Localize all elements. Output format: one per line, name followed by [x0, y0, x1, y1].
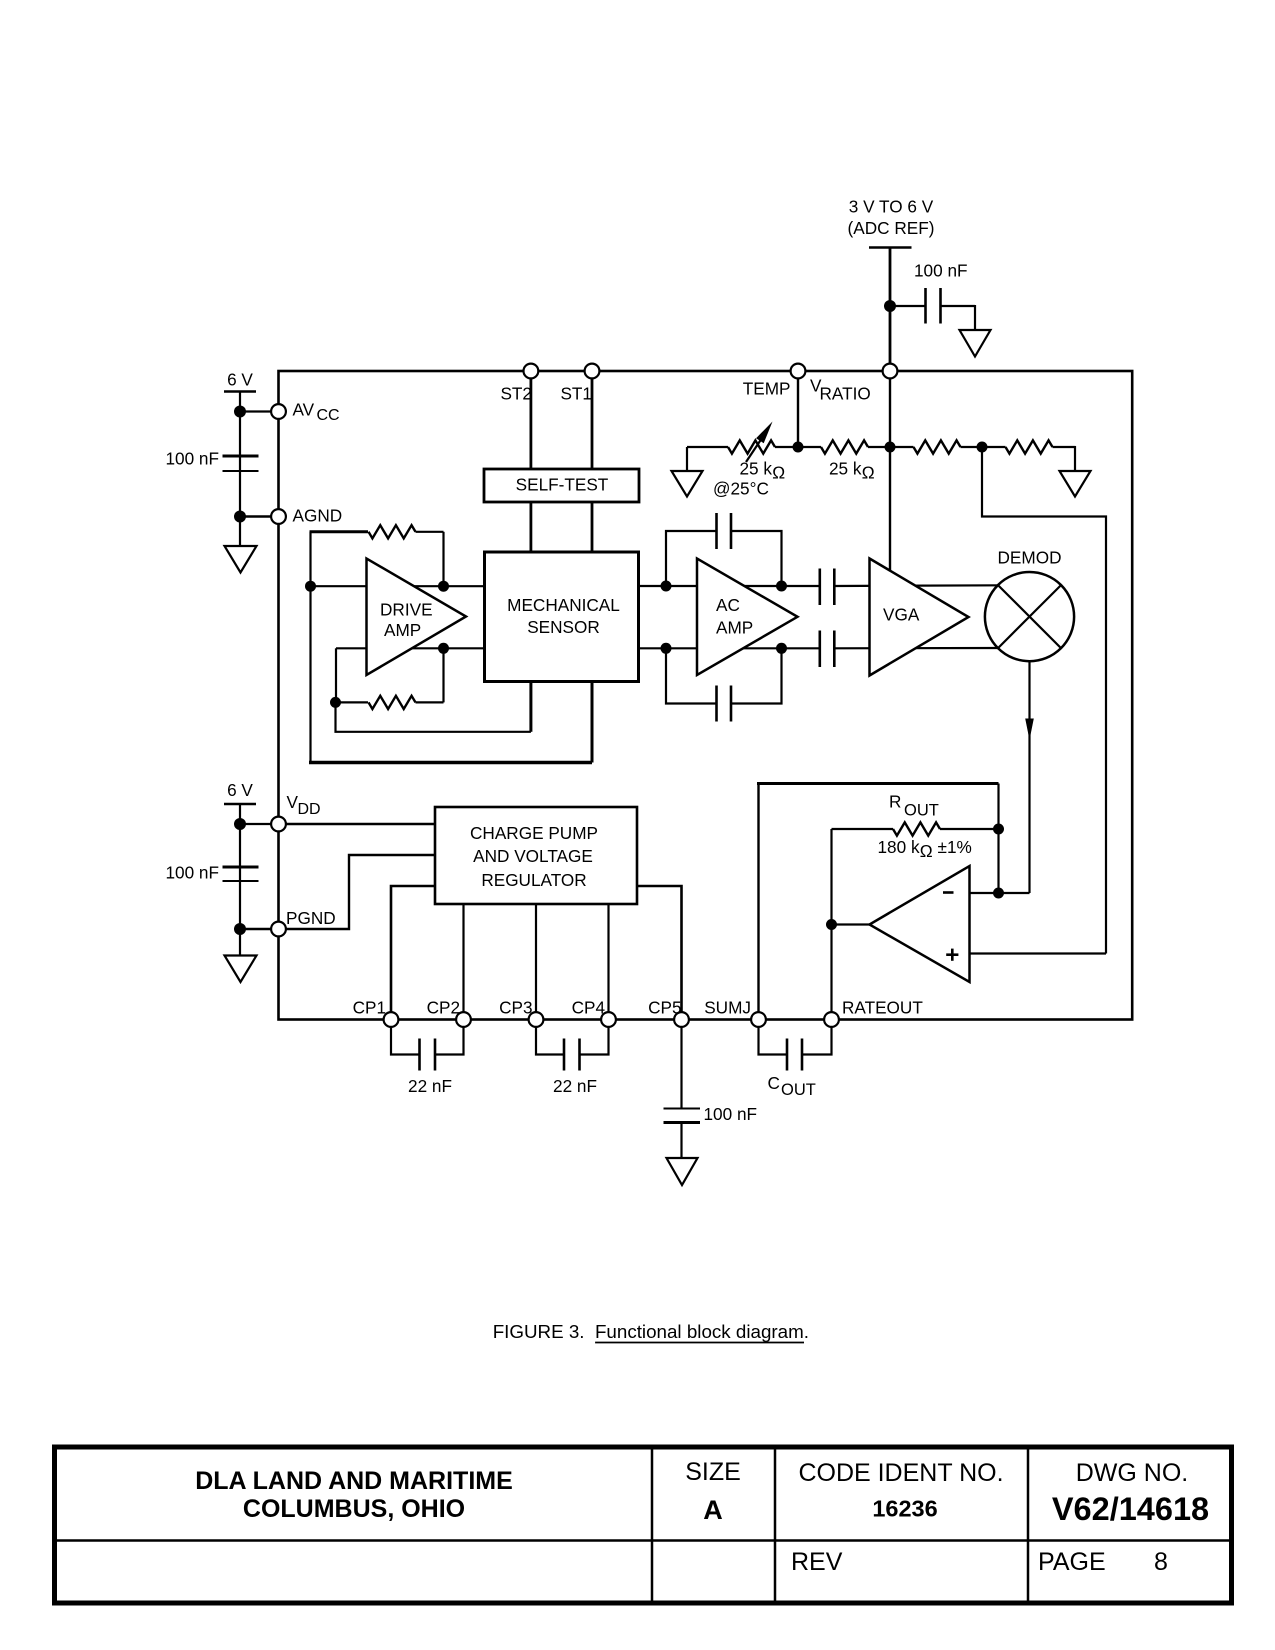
svg-text:REV: REV [791, 1548, 843, 1576]
wire AC amp bottom input [639, 647, 820, 649]
ground GND1 [960, 330, 991, 357]
label 180 kOhm 1% [878, 837, 972, 861]
junction dot AC out bottom [776, 643, 787, 654]
svg-text:SENSOR: SENSOR [527, 617, 600, 637]
junction dot AC in bottom [661, 643, 672, 654]
svg-text:DWG NO.: DWG NO. [1076, 1459, 1189, 1487]
node 6 V supply (AVCC) [224, 370, 256, 392]
wire feedback right vertical [997, 784, 999, 894]
wire C1 to ground [941, 305, 976, 330]
capacitor C2 100 nF (AVCC) [165, 449, 258, 472]
pin PGND [271, 908, 336, 936]
AC amp A2 [697, 559, 798, 676]
pin VRATIO [810, 364, 897, 404]
svg-text:OUT: OUT [781, 1081, 816, 1099]
wire R2 to VRATIO node [868, 446, 914, 448]
wire sensor bottom loop inner [336, 682, 531, 732]
wire to AGND pin [240, 515, 272, 518]
svg-text:SUMJ: SUMJ [704, 998, 751, 1018]
svg-text:R: R [889, 792, 901, 812]
wire R4 to ground [1053, 446, 1076, 471]
pin TEMP [743, 364, 806, 399]
wire R3 to R4 node [961, 446, 1006, 448]
junction dot VDD [234, 818, 246, 830]
capacitor C6 coupling top [820, 569, 835, 606]
svg-text:COLUMBUS, OHIO: COLUMBUS, OHIO [243, 1495, 465, 1523]
svg-text:AGND: AGND [293, 506, 343, 526]
junction dot AVCC [234, 406, 246, 418]
wire VRATIO pin to VGA input [889, 378, 891, 573]
resistor R6 drive feedback bottom [336, 648, 444, 709]
pin CP3 [499, 998, 543, 1027]
ground GND2 (temp resistor) [672, 447, 729, 497]
junction dot ADC node [884, 300, 896, 312]
junction dot AGND [234, 511, 246, 523]
svg-text:8: 8 [1154, 1548, 1168, 1576]
junction dot ROUT right [993, 824, 1004, 835]
svg-text:6 V: 6 V [227, 370, 253, 390]
wire VGA bottom to demod [834, 647, 1002, 649]
capacitor C8 22 nF (CP1-CP2) [391, 1027, 464, 1096]
svg-text:DRIVE: DRIVE [380, 600, 433, 620]
svg-text:SELF-TEST: SELF-TEST [516, 475, 609, 495]
wire VDD pin to charge pump [286, 823, 435, 826]
label ROUT [889, 792, 939, 820]
svg-text:AC: AC [716, 595, 740, 615]
resistor R5 drive feedback top [310, 525, 444, 586]
pin CP2 [427, 998, 471, 1027]
wire CP3 to charge pump [535, 904, 537, 1012]
pin CP1 [353, 998, 399, 1027]
resistor R1 25 kOhm @25C variable [713, 422, 785, 499]
svg-text:DLA LAND AND MARITIME: DLA LAND AND MARITIME [195, 1467, 513, 1495]
svg-text:22 nF: 22 nF [553, 1076, 597, 1096]
wire CP2 to charge pump [462, 904, 464, 1012]
wire feedback top [757, 782, 999, 785]
wire PGND pin to charge pump [286, 855, 435, 929]
svg-text:100 nF: 100 nF [165, 449, 219, 469]
junction dot AC in top [661, 581, 672, 592]
capacitor C5 AC amp feedback bottom [666, 648, 782, 721]
op-amp U2 [870, 866, 970, 982]
svg-text:PAGE: PAGE [1038, 1548, 1106, 1576]
junction dot AC out top [776, 581, 787, 592]
svg-text:A: A [703, 1495, 723, 1525]
title block REV [791, 1548, 843, 1576]
title block SIZE A [685, 1458, 741, 1525]
svg-text:CHARGE PUMP: CHARGE PUMP [470, 823, 598, 843]
svg-text:CC: CC [317, 407, 340, 424]
resistor R3 [914, 440, 961, 453]
svg-text:AND VOLTAGE: AND VOLTAGE [473, 846, 593, 866]
svg-text:6 V: 6 V [227, 780, 253, 800]
wire op-amp minus input [970, 892, 1030, 894]
resistor ROUT 180 kOhm [893, 822, 999, 835]
capacitor COUT (SUMJ-RATEOUT) [759, 1027, 832, 1099]
svg-text:OUT: OUT [904, 802, 939, 820]
wire ADC REF supply to VRATIO pin [889, 248, 892, 367]
pin ST2 [500, 364, 538, 404]
resistor R2 25 kOhm [821, 440, 875, 482]
svg-text:SIZE: SIZE [685, 1458, 741, 1486]
capacitor C7 coupling bottom [820, 631, 835, 668]
junction dot drive feedback bottom [330, 697, 341, 708]
wire ROUT left [832, 828, 894, 830]
svg-text:DEMOD: DEMOD [998, 548, 1062, 568]
wire RATEOUT vertical [830, 829, 832, 1012]
svg-text:VGA: VGA [883, 605, 920, 625]
junction dot op-amp output [826, 919, 837, 930]
VGA amp A3 [870, 559, 969, 676]
capacitor C10 100 nF (CP5) [664, 1027, 758, 1158]
svg-text:ST1: ST1 [560, 384, 592, 404]
title block CODE IDENT NO. 16236 [798, 1459, 1003, 1522]
supply bar ADC REF [869, 246, 912, 249]
svg-text:MECHANICAL: MECHANICAL [507, 595, 620, 615]
junction dot TEMP node [793, 442, 804, 453]
MECHANICAL SENSOR box [485, 552, 639, 682]
svg-text:FIGURE 3. Functional block di: FIGURE 3. Functional block diagram. [493, 1321, 809, 1342]
capacitor C4 AC amp feedback top [666, 513, 782, 586]
title block DWG NO. V62/14618 [1052, 1459, 1209, 1527]
svg-text:3 V TO 6 V: 3 V TO 6 V [849, 197, 934, 217]
capacitor C3 100 nF (VDD) [165, 863, 258, 883]
svg-text:REGULATOR: REGULATOR [481, 870, 586, 890]
wire to PGND pin [240, 928, 272, 931]
wire sensor bottom loop outer [309, 586, 592, 762]
pin AGND [271, 506, 342, 526]
junction dot minus input [993, 888, 1004, 899]
wire op-amp plus input [970, 952, 1107, 954]
junction dot drive output bottom [438, 643, 449, 654]
svg-text:22 nF: 22 nF [408, 1076, 452, 1096]
wire VGA top to demod [834, 584, 1002, 587]
pin SUMJ [704, 998, 766, 1027]
pin CP4 [572, 998, 616, 1027]
pin RATEOUT [824, 998, 923, 1027]
node 3 V TO 6 V (ADC REF) label [848, 197, 935, 239]
title block frame [55, 1447, 1232, 1603]
ground GND3 [1060, 471, 1091, 497]
svg-text:100 nF: 100 nF [704, 1104, 758, 1124]
demod mixer U3 [985, 548, 1074, 662]
label MECHANICAL SENSOR [507, 595, 620, 637]
wire SUMJ to feedback top [757, 784, 759, 1013]
junction dot PGND [234, 923, 246, 935]
svg-text:PGND: PGND [286, 908, 336, 928]
svg-text:AV: AV [293, 400, 315, 420]
wire demod output to op-amp minus [1025, 655, 1034, 893]
capacitor C9 22 nF (CP3-CP4) [536, 1027, 609, 1096]
junction dot node B [977, 442, 988, 453]
IC boundary box U1 [279, 371, 1133, 1020]
wire AVCC supply rail [239, 392, 241, 547]
wire R1 to TEMP node [775, 446, 821, 448]
resistor R4 [1006, 440, 1053, 453]
pin CP5 [648, 998, 689, 1027]
svg-text:100 nF: 100 nF [914, 261, 968, 281]
wire drive amp top input [311, 585, 485, 587]
wire ST2 pin to self-test [530, 378, 533, 552]
wire to AVCC pin [240, 410, 272, 412]
svg-text:CP4: CP4 [572, 998, 606, 1018]
ground GND5 (PGND) [225, 956, 257, 983]
node 6 V supply (VDD) [224, 780, 256, 804]
CHARGE PUMP AND VOLTAGE REGULATOR box [435, 807, 637, 904]
svg-text:CP3: CP3 [499, 998, 532, 1018]
svg-text:CP5: CP5 [648, 998, 681, 1018]
svg-text:AMP: AMP [384, 620, 421, 640]
capacitor C1 100 nF (ADC REF) [914, 261, 968, 324]
wire ADC node to capacitor C1 [890, 305, 926, 307]
svg-text:16236: 16236 [872, 1496, 937, 1522]
svg-text:100 nF: 100 nF [165, 863, 219, 883]
wire to VDD pin [240, 823, 272, 825]
pin ST1 [560, 364, 599, 404]
wire CP1 to charge pump [391, 886, 435, 1012]
title block PAGE 8 [1038, 1548, 1168, 1576]
drive amp A1 [367, 559, 467, 676]
svg-text:C: C [768, 1073, 780, 1093]
svg-text:CP1: CP1 [353, 998, 386, 1018]
svg-text:TEMP: TEMP [743, 379, 791, 399]
wire CP4 to charge pump [607, 904, 609, 1012]
junction dot drive output top [438, 581, 449, 592]
svg-text:DD: DD [298, 801, 321, 818]
junction dot drive input [305, 581, 316, 592]
svg-text:RATEOUT: RATEOUT [842, 998, 923, 1018]
SELF-TEST box [484, 469, 639, 502]
pin AVCC [271, 400, 340, 425]
wire drive amp bottom output to sensor [336, 647, 485, 649]
ground GND4 (AGND) [225, 546, 257, 573]
wire node B to op-amp plus input [982, 447, 1106, 954]
pin VDD [271, 792, 321, 831]
wire TEMP pin to resistor chain [797, 378, 799, 447]
junction dot VRATIO node [885, 442, 896, 453]
svg-text:CP2: CP2 [427, 998, 460, 1018]
svg-text:V62/14618: V62/14618 [1052, 1491, 1209, 1527]
svg-text:RATIO: RATIO [820, 384, 871, 404]
wire AC amp top input [639, 585, 820, 587]
label SELF-TEST [516, 475, 609, 495]
wire op-amp output [832, 923, 873, 925]
svg-text:@25°C: @25°C [713, 479, 769, 499]
svg-text:AMP: AMP [716, 618, 753, 638]
wire CP5 to charge pump [637, 886, 682, 1012]
svg-text:CODE IDENT NO.: CODE IDENT NO. [798, 1459, 1003, 1487]
title block DLA LAND AND MARITIME [195, 1467, 513, 1523]
figure caption [493, 1321, 809, 1343]
wire ST1 pin to self-test [591, 378, 594, 552]
wire VDD supply rail [239, 804, 241, 956]
ground GND6 (CP5) [667, 1158, 698, 1185]
svg-text:ST2: ST2 [500, 384, 532, 404]
svg-text:(ADC REF): (ADC REF) [848, 218, 935, 238]
label CHARGE PUMP AND VOLTAGE REGULATOR [470, 823, 598, 890]
